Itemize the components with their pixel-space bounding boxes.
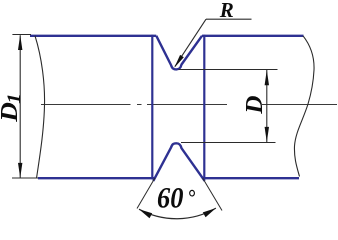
svg-text:R: R: [219, 0, 234, 22]
bottom V-groove profile with root radius: [153, 143, 204, 181]
left break (wavy) line: [35, 36, 45, 178]
dimension D extension line top: [179, 69, 278, 71]
shaft top edge left segment: [30, 35, 156, 37]
angle dimension arc: [139, 208, 216, 219]
shaft top edge right segment: [202, 35, 304, 37]
angle extension line left: [137, 178, 155, 209]
angle extension line right: [203, 178, 222, 211]
dimension D1 arrow up: [18, 35, 22, 50]
dimension D1 arrow down: [18, 163, 22, 178]
dimension D line: [266, 70, 268, 142]
dimension D1 line: [19, 35, 21, 178]
shaft bottom edge right segment: [203, 177, 299, 179]
dimension D extension line bottom: [181, 142, 276, 144]
dimension D1 extension line bottom: [12, 177, 38, 179]
top V-groove profile with root radius: [156, 36, 202, 70]
dimension D arrow up: [265, 70, 269, 85]
dimension D1 extension line top: [12, 34, 31, 36]
centerline (dash-dot axis): [41, 104, 337, 106]
angle arc arrowhead left: [139, 209, 152, 218]
right break (wavy) line: [294, 36, 314, 177]
leader R arrowhead: [174, 55, 184, 68]
groove edge silhouette left vertical: [151, 35, 153, 180]
dimension D arrow down: [265, 127, 269, 142]
svg-text:D: D: [241, 95, 267, 114]
leader R slanted segment: [175, 19, 206, 66]
groove edge silhouette right vertical: [203, 35, 205, 180]
leader R horizontal segment: [206, 18, 252, 20]
svg-text:D1: D1: [0, 93, 24, 123]
angle arc arrowhead right: [203, 208, 216, 217]
shaft bottom edge left segment: [38, 177, 155, 179]
